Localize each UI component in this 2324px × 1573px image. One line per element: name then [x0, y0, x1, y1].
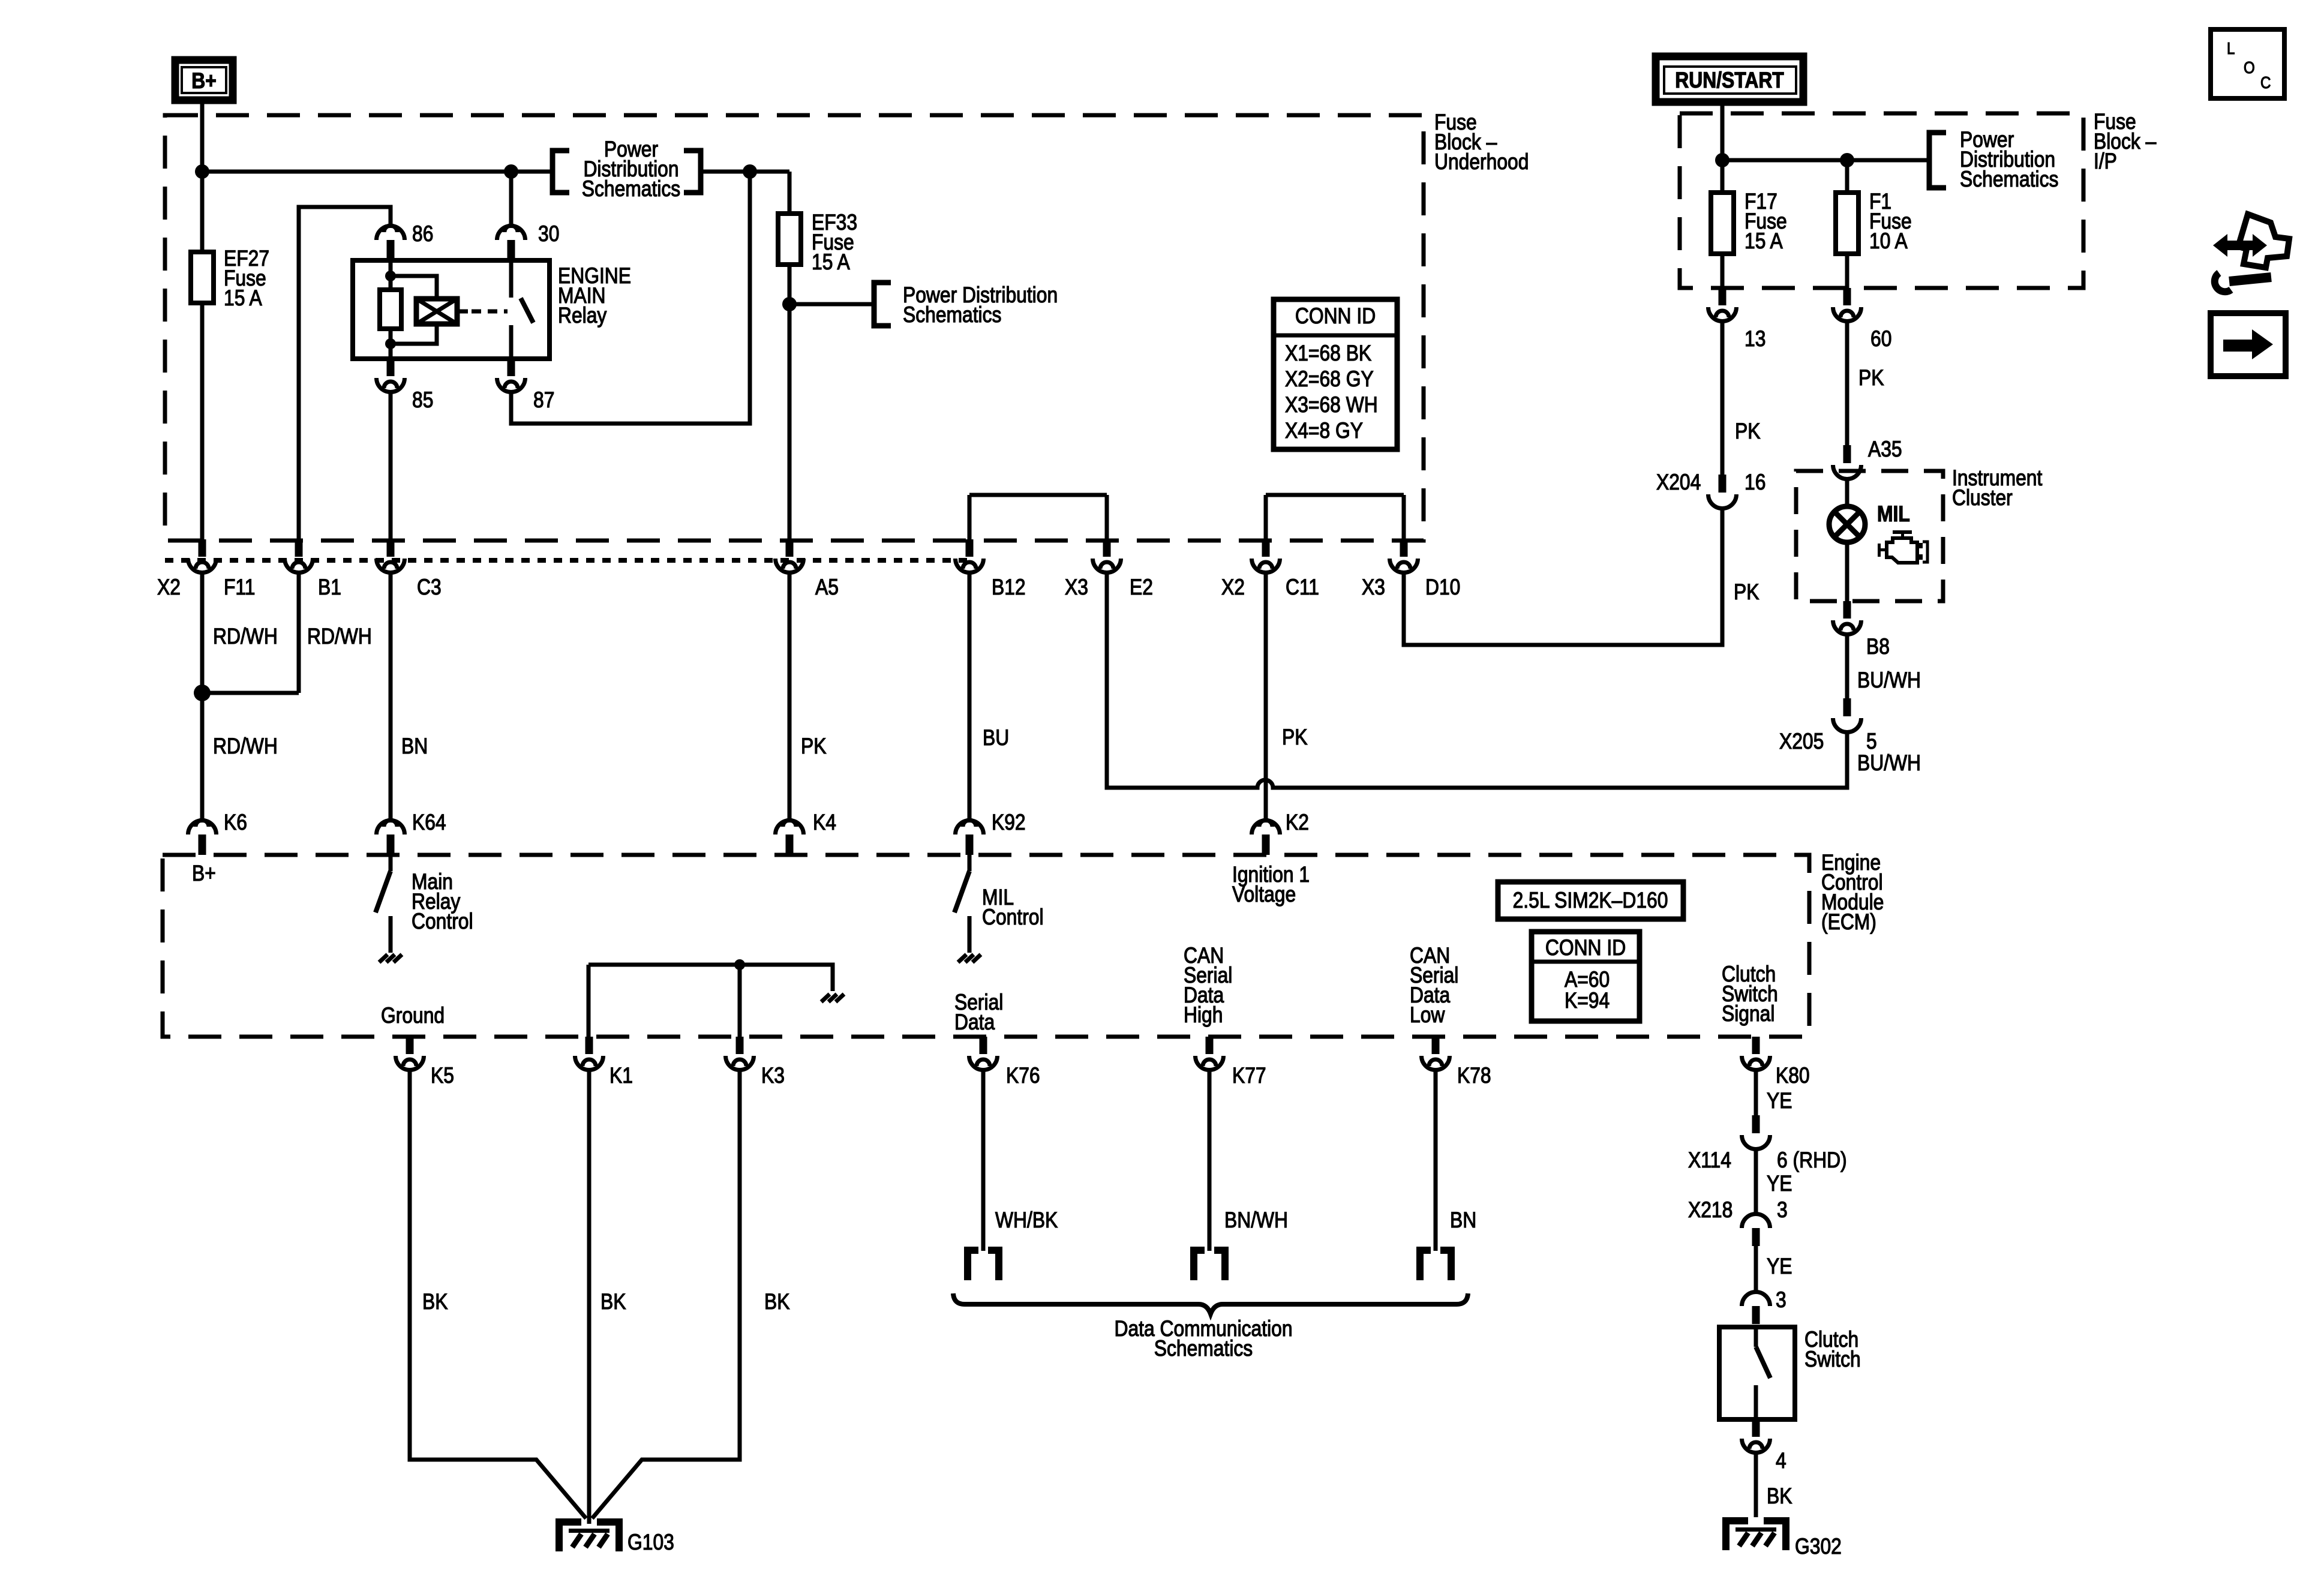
svg-text:BU/WH: BU/WH — [1857, 751, 1921, 776]
svg-text:X3: X3 — [1362, 575, 1385, 600]
svg-text:PK: PK — [1858, 366, 1884, 391]
svg-text:BK: BK — [422, 1290, 448, 1314]
svg-text:YE: YE — [1767, 1089, 1792, 1113]
svg-text:3: 3 — [1776, 1288, 1786, 1313]
svg-text:YE: YE — [1767, 1254, 1792, 1279]
svg-text:4: 4 — [1776, 1449, 1786, 1473]
svg-text:RD/WH: RD/WH — [307, 625, 372, 649]
svg-text:Control: Control — [982, 905, 1044, 930]
svg-text:Ground: Ground — [381, 1004, 445, 1028]
svg-text:E2: E2 — [1130, 575, 1153, 600]
svg-text:BK: BK — [764, 1290, 789, 1314]
svg-text:A5: A5 — [815, 575, 839, 600]
svg-text:BN: BN — [401, 734, 428, 759]
svg-text:RD/WH: RD/WH — [213, 734, 278, 759]
svg-text:B12: B12 — [992, 575, 1026, 600]
svg-text:O: O — [2244, 58, 2255, 77]
svg-text:K4: K4 — [813, 810, 836, 835]
svg-text:3: 3 — [1777, 1198, 1788, 1223]
svg-text:D10: D10 — [1425, 575, 1460, 600]
svg-text:K77: K77 — [1232, 1064, 1266, 1088]
svg-text:13: 13 — [1744, 327, 1765, 352]
svg-text:G302: G302 — [1795, 1535, 1842, 1559]
svg-text:K3: K3 — [761, 1064, 785, 1088]
svg-text:X2: X2 — [157, 575, 181, 600]
svg-text:K6: K6 — [224, 810, 247, 835]
svg-text:BK: BK — [600, 1290, 626, 1314]
svg-text:16: 16 — [1744, 470, 1765, 495]
svg-text:86: 86 — [412, 222, 433, 247]
svg-text:6 (RHD): 6 (RHD) — [1777, 1148, 1847, 1173]
svg-text:X204: X204 — [1656, 470, 1701, 495]
svg-text:RD/WH: RD/WH — [213, 625, 278, 649]
svg-text:Schematics: Schematics — [1154, 1337, 1253, 1361]
svg-text:G103: G103 — [627, 1530, 674, 1555]
svg-text:Relay: Relay — [558, 304, 607, 328]
svg-text:K2: K2 — [1286, 810, 1309, 835]
svg-text:High: High — [1184, 1003, 1223, 1028]
svg-text:X3: X3 — [1065, 575, 1088, 600]
svg-text:BK: BK — [1767, 1484, 1792, 1509]
svg-text:Voltage: Voltage — [1232, 882, 1296, 907]
svg-text:5: 5 — [1866, 730, 1877, 754]
svg-text:C11: C11 — [1286, 575, 1319, 600]
svg-text:K1: K1 — [609, 1064, 633, 1088]
svg-text:CONN ID: CONN ID — [1545, 936, 1626, 960]
svg-text:K5: K5 — [431, 1064, 454, 1088]
svg-text:B+: B+ — [192, 861, 216, 886]
svg-text:Signal: Signal — [1722, 1002, 1774, 1026]
svg-text:(ECM): (ECM) — [1821, 910, 1876, 935]
svg-text:PK: PK — [1734, 580, 1759, 605]
svg-text:BU/WH: BU/WH — [1857, 668, 1921, 693]
svg-text:PK: PK — [1735, 419, 1760, 444]
svg-text:K80: K80 — [1776, 1064, 1810, 1088]
svg-text:15 A: 15 A — [224, 286, 262, 311]
svg-text:X114: X114 — [1688, 1148, 1731, 1173]
svg-text:B+: B+ — [191, 69, 217, 94]
svg-text:F11: F11 — [224, 575, 255, 600]
svg-text:Data: Data — [954, 1010, 995, 1035]
svg-text:BU: BU — [983, 726, 1009, 751]
svg-text:BN: BN — [1450, 1208, 1476, 1233]
svg-text:85: 85 — [412, 388, 433, 413]
svg-text:30: 30 — [538, 222, 559, 247]
svg-text:Low: Low — [1410, 1003, 1445, 1028]
svg-text:Switch: Switch — [1804, 1347, 1861, 1372]
svg-text:MIL: MIL — [1877, 502, 1910, 527]
svg-text:PK: PK — [1282, 725, 1307, 750]
svg-text:Schematics: Schematics — [1960, 167, 2058, 192]
svg-text:60: 60 — [1870, 327, 1891, 352]
svg-text:I/P: I/P — [2094, 149, 2117, 174]
svg-text:X1=68 BK: X1=68 BK — [1285, 341, 1371, 366]
svg-text:X3=68 WH: X3=68 WH — [1285, 393, 1378, 418]
svg-text:K=94: K=94 — [1565, 989, 1610, 1013]
svg-text:YE: YE — [1767, 1172, 1792, 1196]
svg-text:CONN ID: CONN ID — [1295, 304, 1376, 329]
svg-text:BN/WH: BN/WH — [1224, 1208, 1288, 1233]
svg-text:10 A: 10 A — [1869, 229, 1908, 254]
svg-text:PK: PK — [801, 734, 826, 759]
svg-text:RUN/START: RUN/START — [1675, 68, 1783, 93]
svg-text:X218: X218 — [1688, 1198, 1733, 1223]
svg-text:15 A: 15 A — [1744, 229, 1783, 254]
svg-text:WH/BK: WH/BK — [995, 1208, 1058, 1233]
svg-text:K76: K76 — [1006, 1064, 1040, 1088]
svg-text:X2: X2 — [1221, 575, 1245, 600]
svg-text:K64: K64 — [412, 810, 446, 835]
svg-text:2.5L SIM2K–D160: 2.5L SIM2K–D160 — [1513, 888, 1668, 913]
svg-text:K92: K92 — [992, 810, 1026, 835]
svg-text:Schematics: Schematics — [582, 177, 680, 202]
svg-text:C3: C3 — [417, 575, 442, 600]
svg-text:X205: X205 — [1779, 730, 1824, 754]
svg-text:A35: A35 — [1868, 437, 1902, 462]
svg-text:Underhood: Underhood — [1434, 150, 1529, 175]
svg-text:Schematics: Schematics — [903, 303, 1001, 328]
svg-text:L: L — [2227, 38, 2235, 58]
svg-text:B1: B1 — [318, 575, 341, 600]
svg-text:87: 87 — [533, 388, 554, 413]
svg-text:15 A: 15 A — [812, 250, 850, 275]
svg-text:X4=8 GY: X4=8 GY — [1285, 419, 1363, 443]
svg-text:Cluster: Cluster — [1952, 486, 2013, 511]
svg-text:C: C — [2260, 73, 2271, 92]
svg-text:X2=68 GY: X2=68 GY — [1285, 367, 1374, 392]
svg-text:B8: B8 — [1866, 635, 1890, 659]
svg-text:K78: K78 — [1457, 1064, 1491, 1088]
svg-text:Control: Control — [412, 909, 473, 934]
